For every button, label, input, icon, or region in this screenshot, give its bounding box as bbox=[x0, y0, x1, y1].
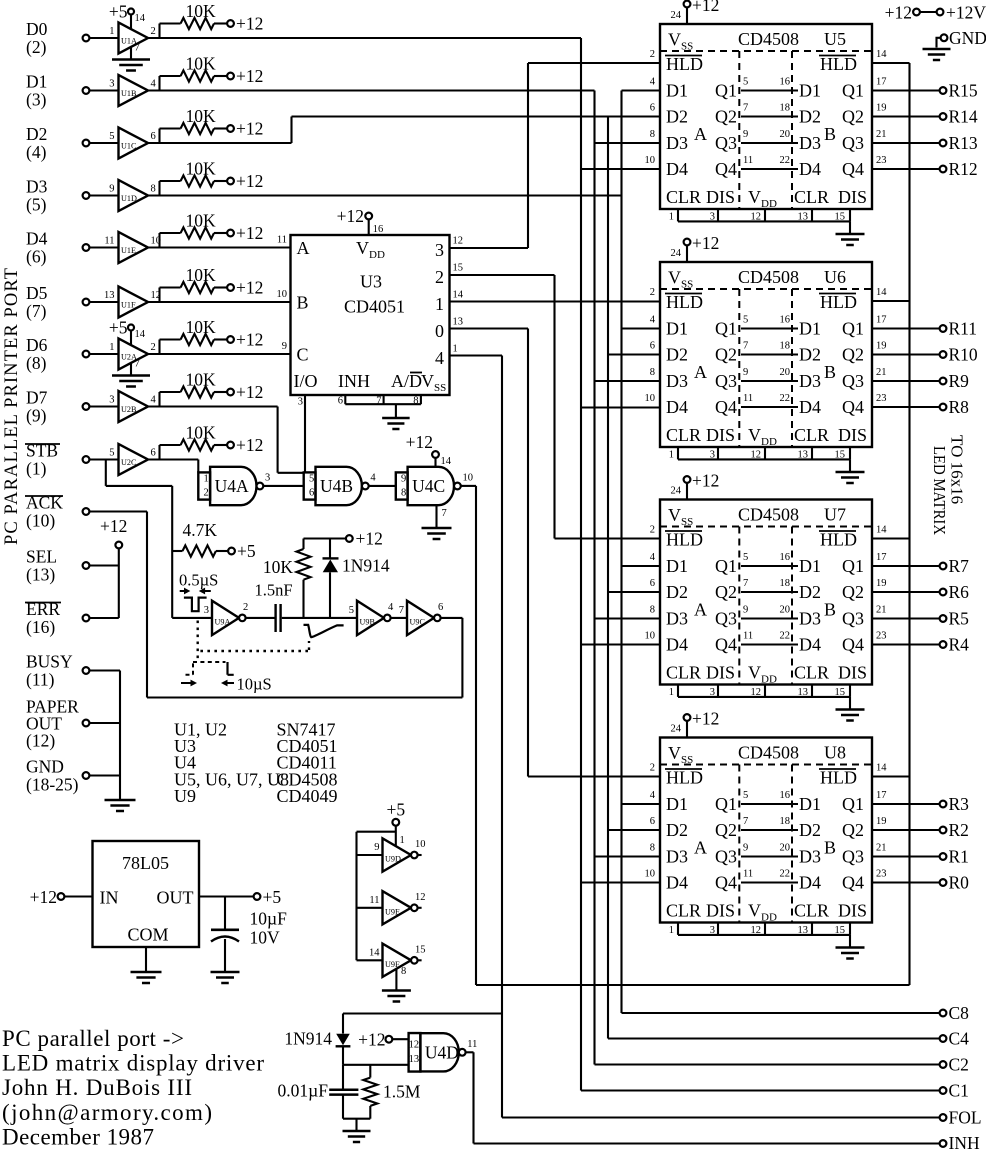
svg-text:Q1: Q1 bbox=[715, 81, 737, 101]
svg-text:19: 19 bbox=[876, 341, 887, 352]
svg-text:8: 8 bbox=[650, 367, 655, 378]
svg-text:Q3: Q3 bbox=[842, 847, 864, 867]
input terminal ERR bbox=[83, 615, 90, 622]
svg-text:U5: U5 bbox=[824, 29, 846, 49]
svg-text:9: 9 bbox=[109, 184, 114, 195]
buffer U1F bbox=[83, 299, 90, 306]
svg-text:Q1: Q1 bbox=[842, 81, 864, 101]
svg-text:U9: U9 bbox=[174, 786, 196, 806]
svg-text:4: 4 bbox=[650, 790, 656, 801]
svg-text:C: C bbox=[297, 345, 309, 365]
svg-text:LED matrix display driver: LED matrix display driver bbox=[2, 1051, 264, 1076]
svg-text:3: 3 bbox=[204, 605, 209, 616]
svg-text:1: 1 bbox=[669, 450, 674, 461]
svg-text:19: 19 bbox=[876, 578, 887, 589]
svg-text:CLR: CLR bbox=[666, 187, 701, 207]
wire U8 Q3A to D3B bbox=[741, 855, 798, 857]
svg-text:D1: D1 bbox=[799, 81, 821, 101]
resistor 10K pull-up on D4 bbox=[158, 233, 160, 248]
svg-text:8: 8 bbox=[151, 184, 156, 195]
svg-text:7: 7 bbox=[399, 605, 404, 616]
svg-text:D1: D1 bbox=[26, 72, 47, 92]
svg-text:Q4: Q4 bbox=[715, 397, 737, 417]
svg-text:CD4049: CD4049 bbox=[277, 786, 338, 806]
svg-text:10K: 10K bbox=[186, 211, 217, 231]
svg-text:U1F: U1F bbox=[121, 301, 136, 310]
svg-text:7: 7 bbox=[743, 578, 748, 589]
svg-text:D4: D4 bbox=[799, 397, 821, 417]
svg-text:B: B bbox=[824, 838, 836, 858]
svg-text:(5): (5) bbox=[26, 195, 47, 215]
svg-text:Q3: Q3 bbox=[842, 371, 864, 391]
svg-text:DIS: DIS bbox=[838, 187, 867, 207]
svg-text:14: 14 bbox=[453, 290, 464, 301]
svg-text:3: 3 bbox=[109, 79, 114, 90]
svg-text:D2: D2 bbox=[26, 124, 47, 144]
wire U6 Q3A to D3B bbox=[741, 380, 798, 382]
svg-text:6: 6 bbox=[650, 578, 655, 589]
resistor 10K pull-up on D6 bbox=[158, 340, 160, 355]
IC U8 CD4508 latch bbox=[660, 738, 872, 923]
svg-text:12: 12 bbox=[453, 236, 464, 247]
svg-text:2: 2 bbox=[151, 26, 156, 37]
svg-text:D1: D1 bbox=[799, 794, 821, 814]
wire U7 Q1A to D1B bbox=[741, 565, 798, 567]
svg-text:1.5nF: 1.5nF bbox=[255, 581, 293, 600]
wire U5 HLD-B pin14 to clock bus bbox=[872, 62, 910, 64]
svg-text:(8): (8) bbox=[26, 353, 47, 373]
input terminal ACK bbox=[83, 508, 90, 515]
svg-text:17: 17 bbox=[876, 77, 887, 88]
svg-text:14: 14 bbox=[876, 287, 887, 298]
svg-text:6: 6 bbox=[309, 488, 314, 499]
svg-text:(11): (11) bbox=[26, 670, 55, 690]
svg-text:10K: 10K bbox=[186, 265, 217, 285]
svg-text:D4: D4 bbox=[666, 873, 688, 893]
svg-text:5: 5 bbox=[743, 77, 748, 88]
svg-text:R9: R9 bbox=[949, 371, 970, 391]
svg-text:D2: D2 bbox=[799, 345, 821, 365]
svg-text:7: 7 bbox=[743, 341, 748, 352]
svg-text:16: 16 bbox=[780, 77, 791, 88]
svg-text:December 1987: December 1987 bbox=[2, 1124, 154, 1149]
svg-text:PC PARALLEL PRINTER PORT: PC PARALLEL PRINTER PORT bbox=[2, 268, 22, 545]
svg-text:D3: D3 bbox=[799, 133, 821, 153]
svg-text:+12: +12 bbox=[236, 171, 263, 191]
svg-text:10: 10 bbox=[645, 631, 656, 642]
svg-text:Q4: Q4 bbox=[842, 159, 864, 179]
svg-text:22: 22 bbox=[780, 393, 791, 404]
wire one-shot +12 rail bbox=[304, 537, 346, 539]
svg-text:Q2: Q2 bbox=[715, 345, 737, 365]
svg-text:(16): (16) bbox=[26, 617, 55, 637]
inverter U9B bbox=[357, 601, 384, 635]
svg-text:3: 3 bbox=[435, 240, 444, 260]
svg-text:(7): (7) bbox=[26, 301, 47, 321]
svg-text:Q4: Q4 bbox=[715, 873, 737, 893]
svg-text:R3: R3 bbox=[949, 794, 970, 814]
wire D0 row to bus bbox=[148, 37, 581, 39]
svg-text:Q2: Q2 bbox=[715, 820, 737, 840]
svg-text:11: 11 bbox=[104, 236, 114, 247]
wire U7.D2 stub bbox=[608, 591, 660, 593]
wire STB buffered to U4A bbox=[148, 458, 198, 460]
svg-text:U1C: U1C bbox=[121, 142, 137, 151]
svg-text:INH: INH bbox=[338, 371, 370, 391]
svg-text:C8: C8 bbox=[949, 1003, 970, 1023]
svg-text:10: 10 bbox=[277, 289, 288, 300]
svg-text:A: A bbox=[694, 600, 707, 620]
svg-text:GND: GND bbox=[26, 757, 64, 777]
svg-text:0: 0 bbox=[435, 321, 444, 341]
svg-text:HLD: HLD bbox=[666, 292, 703, 312]
svg-text:R1: R1 bbox=[949, 847, 969, 867]
svg-text:CD4051: CD4051 bbox=[344, 297, 405, 317]
svg-text:12: 12 bbox=[751, 687, 762, 698]
svg-text:10K: 10K bbox=[186, 106, 217, 126]
svg-text:B: B bbox=[824, 600, 836, 620]
wire U6.D3 stub bbox=[595, 380, 661, 382]
svg-text:6: 6 bbox=[438, 602, 443, 613]
svg-text:2: 2 bbox=[650, 49, 655, 60]
svg-text:13: 13 bbox=[798, 450, 809, 461]
svg-text:D3: D3 bbox=[666, 133, 688, 153]
wire U7.D4 stub bbox=[581, 643, 660, 645]
svg-text:21: 21 bbox=[876, 843, 887, 854]
wire U4D out to INH bbox=[466, 1051, 474, 1053]
output C8 bbox=[622, 1012, 940, 1014]
svg-text:CD4508: CD4508 bbox=[738, 505, 799, 525]
svg-text:5: 5 bbox=[743, 315, 748, 326]
output R2 bbox=[872, 829, 940, 831]
ground of U8 bbox=[849, 935, 851, 947]
wire U4C out to latch clock bus bbox=[461, 485, 476, 487]
svg-text:+12: +12 bbox=[236, 14, 263, 34]
svg-text:16: 16 bbox=[780, 552, 791, 563]
svg-text:R2: R2 bbox=[949, 820, 969, 840]
resistor 10K pull-up on STB bbox=[158, 445, 160, 460]
svg-text:6: 6 bbox=[151, 448, 156, 459]
inverter U9C bbox=[407, 601, 434, 635]
svg-text:Q1: Q1 bbox=[842, 556, 864, 576]
svg-text:1N914: 1N914 bbox=[342, 556, 390, 576]
svg-text:13: 13 bbox=[798, 925, 809, 936]
svg-text:D4: D4 bbox=[666, 397, 688, 417]
svg-text:CD4508: CD4508 bbox=[738, 743, 799, 763]
annotation 10uS pulse bbox=[186, 674, 194, 676]
svg-text:+5: +5 bbox=[109, 2, 128, 22]
svg-text:Q1: Q1 bbox=[842, 794, 864, 814]
svg-text:+12: +12 bbox=[236, 66, 263, 86]
svg-text:+12: +12 bbox=[236, 278, 263, 298]
svg-text:21: 21 bbox=[876, 605, 887, 616]
svg-text:D2: D2 bbox=[666, 107, 688, 127]
svg-text:24: 24 bbox=[671, 10, 682, 21]
output R1 bbox=[872, 855, 940, 857]
svg-text:D6: D6 bbox=[26, 335, 48, 355]
buffer U1E bbox=[83, 244, 90, 251]
svg-text:+5: +5 bbox=[237, 541, 256, 561]
output C4 bbox=[608, 1037, 940, 1039]
wire D6 row to U3.C bbox=[148, 353, 291, 355]
buffer U2B bbox=[83, 403, 90, 410]
svg-text:U1B: U1B bbox=[121, 89, 137, 98]
svg-text:D2: D2 bbox=[666, 820, 688, 840]
svg-text:23: 23 bbox=[876, 631, 887, 642]
svg-text:D5: D5 bbox=[26, 283, 48, 303]
svg-text:13: 13 bbox=[104, 290, 115, 301]
svg-text:23: 23 bbox=[876, 155, 887, 166]
svg-text:U8: U8 bbox=[824, 743, 846, 763]
wire U5.D3 stub bbox=[595, 142, 661, 144]
wire U4B out to U4C bbox=[369, 485, 396, 487]
+12 supply of U5 bbox=[684, 1, 691, 8]
output R9 bbox=[872, 380, 940, 382]
NAND gate U4A bbox=[198, 472, 210, 499]
svg-text:(18-25): (18-25) bbox=[26, 775, 79, 795]
svg-text:9: 9 bbox=[743, 605, 748, 616]
svg-text:+12: +12 bbox=[692, 0, 719, 15]
svg-text:1: 1 bbox=[669, 687, 674, 698]
svg-text:D3: D3 bbox=[666, 609, 688, 629]
svg-text:D3: D3 bbox=[26, 177, 48, 197]
svg-text:10K: 10K bbox=[186, 159, 217, 179]
svg-text:C4: C4 bbox=[949, 1029, 970, 1049]
svg-text:Q4: Q4 bbox=[715, 635, 737, 655]
resistor 10K pull-up on D3 bbox=[158, 181, 160, 196]
svg-text:(john@armory.com): (john@armory.com) bbox=[2, 1100, 212, 1125]
svg-text:23: 23 bbox=[876, 869, 887, 880]
svg-text:10: 10 bbox=[645, 393, 656, 404]
ground of U7 bbox=[849, 697, 851, 709]
svg-text:15: 15 bbox=[835, 687, 846, 698]
svg-text:D1: D1 bbox=[799, 319, 821, 339]
svg-text:DIS: DIS bbox=[706, 425, 735, 445]
svg-text:2: 2 bbox=[650, 287, 655, 298]
svg-text:Q3: Q3 bbox=[842, 133, 864, 153]
wire U3 I/O pin3 to U4B bbox=[304, 395, 306, 472]
svg-text:12: 12 bbox=[409, 1040, 420, 1051]
svg-text:10µF: 10µF bbox=[250, 909, 288, 929]
svg-text:D3: D3 bbox=[799, 609, 821, 629]
svg-text:HLD: HLD bbox=[820, 530, 857, 550]
annotation dotted timing links bbox=[196, 621, 198, 662]
svg-text:Q4: Q4 bbox=[715, 159, 737, 179]
svg-text:D2: D2 bbox=[799, 820, 821, 840]
svg-text:DIS: DIS bbox=[838, 663, 867, 683]
svg-text:0.5µS: 0.5µS bbox=[179, 571, 218, 590]
svg-text:U9A: U9A bbox=[215, 617, 231, 626]
svg-text:U4B: U4B bbox=[320, 476, 353, 496]
svg-text:4: 4 bbox=[370, 473, 376, 484]
svg-text:2: 2 bbox=[243, 602, 248, 613]
ground for port common bbox=[105, 799, 136, 802]
svg-text:U9C: U9C bbox=[410, 617, 426, 626]
wire U6 Q1A to D1B bbox=[741, 327, 798, 329]
svg-text:13: 13 bbox=[453, 317, 464, 328]
wire spare inputs tie rail bbox=[357, 831, 396, 833]
svg-text:INH: INH bbox=[949, 1133, 980, 1151]
svg-text:Q1: Q1 bbox=[715, 794, 737, 814]
svg-text:Q2: Q2 bbox=[715, 582, 737, 602]
svg-text:12: 12 bbox=[751, 212, 762, 223]
output R0 bbox=[872, 881, 940, 883]
wire U3 out 3 to U5 HLD bbox=[450, 247, 529, 249]
output C2 bbox=[595, 1063, 940, 1065]
svg-text:Q2: Q2 bbox=[715, 107, 737, 127]
wire U5.D1 stub bbox=[622, 89, 661, 91]
buffer U1B bbox=[83, 87, 90, 94]
svg-text:11: 11 bbox=[743, 631, 753, 642]
svg-text:+12: +12 bbox=[356, 529, 383, 549]
svg-text:6: 6 bbox=[650, 816, 655, 827]
svg-text:11: 11 bbox=[277, 235, 287, 246]
svg-text:DIS: DIS bbox=[838, 901, 867, 921]
svg-text:4: 4 bbox=[650, 77, 656, 88]
svg-text:+12: +12 bbox=[406, 432, 433, 452]
svg-text:14: 14 bbox=[135, 13, 146, 24]
wire U3 out 4 to follower net bbox=[450, 354, 503, 356]
buffer U1A bbox=[83, 35, 90, 42]
wire U7.D3 stub bbox=[595, 617, 661, 619]
svg-text:+12: +12 bbox=[692, 709, 719, 729]
wire cap to U9B input bbox=[282, 617, 357, 619]
bus wire D3 column bbox=[620, 91, 622, 1014]
svg-text:D3: D3 bbox=[799, 847, 821, 867]
svg-text:+12: +12 bbox=[337, 206, 364, 226]
input terminal PAPER OUT bbox=[83, 720, 90, 727]
svg-text:U4D: U4D bbox=[425, 1042, 459, 1062]
svg-text:5: 5 bbox=[309, 473, 314, 484]
svg-text:10K: 10K bbox=[263, 557, 294, 577]
output R14 bbox=[872, 115, 940, 117]
wire U5 Q3A to D3B bbox=[741, 142, 798, 144]
wire U5 Q2A to D2B bbox=[741, 115, 798, 117]
svg-text:15: 15 bbox=[835, 450, 846, 461]
svg-text:24: 24 bbox=[671, 486, 682, 497]
svg-text:13: 13 bbox=[798, 687, 809, 698]
svg-text:18: 18 bbox=[780, 578, 791, 589]
svg-text:1N914: 1N914 bbox=[284, 1029, 332, 1049]
svg-text:21: 21 bbox=[876, 129, 887, 140]
input terminal SEL bbox=[83, 562, 90, 569]
svg-text:14: 14 bbox=[876, 763, 887, 774]
svg-text:Q3: Q3 bbox=[842, 609, 864, 629]
svg-text:12: 12 bbox=[751, 925, 762, 936]
wire U3 out 1 to U6 HLD bbox=[450, 300, 661, 302]
svg-text:Q2: Q2 bbox=[842, 107, 864, 127]
svg-text:DIS: DIS bbox=[706, 187, 735, 207]
svg-text:11: 11 bbox=[369, 895, 379, 906]
clock bus vertical to HLD pins bbox=[908, 63, 910, 985]
wire U8.D1 stub bbox=[622, 803, 661, 805]
IC U7 CD4508 latch bbox=[660, 500, 872, 685]
svg-text:SEL: SEL bbox=[26, 547, 57, 567]
svg-text:4: 4 bbox=[388, 602, 394, 613]
NAND gate U4C bbox=[396, 472, 408, 499]
svg-text:U4C: U4C bbox=[412, 476, 445, 496]
inverter U9D bbox=[383, 838, 412, 871]
svg-text:+5: +5 bbox=[263, 887, 282, 907]
svg-text:24: 24 bbox=[671, 248, 682, 259]
wire U8.D3 stub bbox=[595, 855, 661, 857]
svg-text:Q3: Q3 bbox=[715, 847, 737, 867]
svg-text:12: 12 bbox=[415, 892, 426, 903]
svg-text:CD4508: CD4508 bbox=[738, 29, 799, 49]
svg-text:12: 12 bbox=[751, 450, 762, 461]
svg-text:+12: +12 bbox=[236, 382, 263, 402]
wire RC bottom to ground bbox=[343, 1118, 370, 1120]
buffer U1D bbox=[83, 192, 90, 199]
svg-text:2: 2 bbox=[435, 267, 444, 287]
svg-text:U7: U7 bbox=[824, 505, 846, 525]
svg-text:U6: U6 bbox=[824, 267, 846, 287]
svg-text:(9): (9) bbox=[26, 406, 47, 426]
svg-text:BUSY: BUSY bbox=[26, 652, 73, 672]
wire U6.D1 stub bbox=[622, 327, 661, 329]
svg-text:D4: D4 bbox=[666, 159, 688, 179]
wire D1 row to bus bbox=[148, 89, 595, 91]
svg-text:1: 1 bbox=[109, 342, 114, 353]
svg-text:23: 23 bbox=[876, 393, 887, 404]
svg-text:20: 20 bbox=[780, 605, 791, 616]
wire U3 out 0 to U8 HLD bbox=[450, 327, 529, 329]
wire U7 HLD-B pin14 to clock bus bbox=[872, 537, 910, 539]
svg-text:3: 3 bbox=[710, 450, 715, 461]
svg-text:+5: +5 bbox=[386, 800, 405, 820]
svg-text:D1: D1 bbox=[666, 556, 688, 576]
svg-text:+12: +12 bbox=[692, 233, 719, 253]
svg-text:15: 15 bbox=[453, 263, 464, 274]
svg-text:7: 7 bbox=[376, 396, 381, 407]
svg-text:B: B bbox=[297, 293, 309, 313]
wire U8.D4 stub bbox=[581, 881, 660, 883]
svg-text:9: 9 bbox=[743, 367, 748, 378]
svg-text:11: 11 bbox=[743, 155, 753, 166]
output R10 bbox=[872, 353, 940, 355]
svg-text:(4): (4) bbox=[26, 142, 47, 162]
ground bus pins 1,3,12,13,15 of U8 bbox=[677, 923, 679, 935]
svg-text:R8: R8 bbox=[949, 397, 970, 417]
svg-text:+12: +12 bbox=[236, 223, 263, 243]
svg-text:U9D: U9D bbox=[385, 855, 401, 864]
svg-text:TO 16x16: TO 16x16 bbox=[948, 435, 967, 504]
svg-text:(6): (6) bbox=[26, 247, 47, 267]
wire U7 Q4A to D4B bbox=[741, 643, 798, 645]
wire U6 Q2A to D2B bbox=[741, 353, 798, 355]
svg-text:6: 6 bbox=[650, 341, 655, 352]
svg-text:2: 2 bbox=[151, 342, 156, 353]
buffer U1C bbox=[83, 140, 90, 147]
svg-text:U4A: U4A bbox=[215, 476, 249, 496]
wire U5 Q1A to D1B bbox=[741, 89, 798, 91]
svg-text:Q4: Q4 bbox=[842, 635, 864, 655]
svg-text:10K: 10K bbox=[186, 54, 217, 74]
output INH bbox=[474, 1142, 940, 1144]
wire U3 out 2 to U7 HLD bbox=[450, 274, 555, 276]
svg-text:U1E: U1E bbox=[121, 246, 136, 255]
svg-text:10K: 10K bbox=[186, 1, 217, 21]
svg-text:DIS: DIS bbox=[706, 663, 735, 683]
svg-text:D2: D2 bbox=[799, 107, 821, 127]
svg-text:U3: U3 bbox=[360, 272, 382, 292]
svg-text:18: 18 bbox=[780, 341, 791, 352]
wire STB raw branch to one-shot bbox=[105, 460, 107, 486]
svg-text:0.01µF: 0.01µF bbox=[278, 1081, 329, 1101]
wire U4A out to U4B bbox=[263, 485, 303, 487]
svg-text:11: 11 bbox=[743, 393, 753, 404]
svg-text:8: 8 bbox=[401, 488, 406, 499]
